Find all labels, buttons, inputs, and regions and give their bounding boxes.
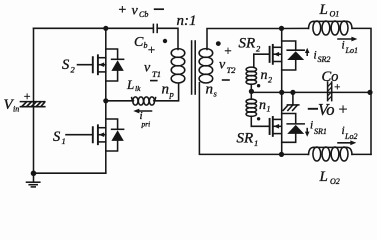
label vT1: [144, 42, 161, 81]
wire switch leg: [105, 28, 107, 173]
wire Llk to primary: [155, 83, 179, 101]
wire LO2 to right rail: [352, 153, 371, 155]
wire SR leg: [281, 29, 283, 155]
label S2: [62, 57, 76, 75]
label S1: [53, 129, 66, 146]
svg-text:in: in: [13, 105, 19, 114]
node secondary dot: [216, 41, 221, 46]
node n1 polarity dot: [257, 117, 260, 120]
wire secondary bottom: [199, 83, 281, 155]
svg-text:SR: SR: [237, 131, 254, 147]
svg-text:SR2: SR2: [318, 55, 331, 64]
svg-text:L: L: [319, 2, 328, 18]
node n2 polarity dot: [257, 84, 260, 87]
wire Llk branch: [106, 100, 133, 102]
svg-text:p: p: [169, 89, 174, 99]
svg-text:v: v: [144, 60, 151, 75]
arrow iSR1: [305, 129, 310, 137]
svg-text:n: n: [261, 68, 268, 83]
label SR1: [237, 131, 259, 148]
arrow iLo1: [338, 37, 357, 42]
transistor SR1: [252, 117, 282, 136]
node F (SR2 source junction): [279, 90, 284, 95]
label n1: [259, 98, 271, 113]
arrow ipri: [133, 109, 151, 114]
svg-text:+: +: [334, 82, 341, 94]
label np: [162, 82, 174, 100]
svg-text:S: S: [62, 57, 70, 73]
svg-text:1: 1: [267, 105, 271, 114]
wire top rail primary: [34, 27, 154, 29]
wire Cb to transformer: [157, 28, 178, 49]
wire left rail: [33, 28, 35, 173]
node G (ground tap junction): [290, 90, 295, 95]
node E (gate windings junction): [249, 89, 254, 94]
node primary dot: [163, 39, 167, 43]
svg-text:C: C: [134, 35, 144, 50]
diode body SR2: [282, 41, 305, 70]
svg-text:Lo1: Lo1: [345, 46, 358, 55]
label iSR2: [314, 49, 331, 64]
node H (output rail right junction): [367, 90, 372, 95]
transistor S1: [66, 125, 106, 144]
diode body S2: [106, 49, 124, 81]
svg-text:lk: lk: [135, 84, 141, 93]
svg-text:2: 2: [256, 44, 261, 54]
label vCb: [118, 3, 165, 19]
label SR2: [239, 36, 262, 54]
wire n2 to n1: [250, 84, 252, 99]
label ipri: [140, 110, 151, 129]
wire Llk hooks: [132, 98, 134, 101]
inductor LO2: [309, 147, 353, 161]
svg-text:i: i: [310, 119, 313, 131]
ground (bottom left): [27, 173, 40, 187]
svg-text:Cb: Cb: [139, 10, 148, 19]
svg-text:S: S: [53, 129, 61, 145]
svg-text:Vo: Vo: [318, 100, 335, 119]
label vT2: [219, 43, 236, 80]
transistor S2: [78, 55, 106, 74]
transformer T1 primary winding np: [171, 49, 185, 83]
label iLo1: [342, 40, 358, 56]
source Vin (hatched DC source symbol): [20, 102, 44, 107]
svg-text:T1: T1: [152, 69, 161, 79]
svg-text:+: +: [224, 43, 233, 58]
svg-text:L: L: [319, 169, 328, 185]
winding n2 gate drive: [246, 54, 256, 84]
node C (bottom-left ground junction): [31, 171, 37, 177]
node D (SR2 drain tap): [279, 26, 284, 31]
label LO2: [319, 169, 340, 186]
label iSR1: [310, 119, 327, 136]
label iLo2: [342, 125, 358, 141]
svg-text:2: 2: [71, 64, 76, 74]
transformer core: [192, 41, 196, 94]
diode body S1: [106, 119, 124, 151]
svg-text:n: n: [259, 98, 266, 113]
svg-text:+: +: [118, 3, 127, 18]
arrow iSR2: [305, 48, 310, 55]
svg-text:+: +: [338, 102, 349, 119]
wire LO1 to right rail: [352, 28, 371, 154]
label Cb: [134, 35, 148, 50]
svg-text:n: n: [162, 82, 170, 98]
node B (switch midpoint junction): [103, 98, 108, 103]
label Llk: [126, 77, 141, 93]
svg-text:1: 1: [62, 136, 66, 146]
svg-text:L: L: [126, 77, 134, 92]
svg-text:pri: pri: [141, 120, 151, 129]
svg-text:O2: O2: [330, 177, 340, 186]
arrow iLo2: [338, 140, 356, 145]
label LO1: [319, 2, 340, 19]
svg-text:v: v: [132, 3, 139, 18]
svg-text:i: i: [342, 40, 345, 52]
winding n1 gate drive: [246, 99, 256, 126]
wire top rail secondary: [282, 27, 309, 29]
capacitor Co (hatched): [328, 82, 332, 101]
svg-text:v: v: [219, 57, 226, 72]
svg-text:1: 1: [254, 138, 258, 148]
svg-text:SR1: SR1: [314, 127, 327, 136]
svg-text:s: s: [214, 89, 218, 99]
label ns: [206, 81, 218, 98]
svg-text:Lo2: Lo2: [344, 132, 357, 141]
transistor SR2: [254, 45, 282, 64]
inductor Llk: [133, 97, 155, 105]
label Vin: [4, 89, 32, 114]
svg-text:O1: O1: [330, 10, 340, 19]
svg-text:+: +: [147, 42, 156, 57]
wire mid rail: [251, 91, 371, 93]
node A (half-bridge top junction): [103, 26, 108, 31]
wire secondary top: [207, 29, 282, 50]
label Vo: [308, 100, 348, 119]
capacitor Cb: [153, 24, 157, 32]
svg-text:T2: T2: [227, 65, 237, 75]
svg-text:SR: SR: [239, 36, 256, 52]
svg-text:n:1: n:1: [177, 13, 197, 29]
wire bottom rail secondary: [282, 153, 309, 155]
svg-text:2: 2: [268, 76, 272, 85]
label n2: [261, 68, 273, 84]
svg-text:i: i: [314, 49, 317, 61]
svg-text:n: n: [206, 81, 214, 97]
wire bottom rail primary: [34, 172, 106, 174]
diode body SR1: [282, 114, 305, 143]
transformer T1 secondary winding ns: [199, 49, 213, 83]
svg-text:+: +: [23, 89, 31, 103]
ground (earth, mid rail): [283, 92, 299, 110]
inductor LO1: [309, 21, 353, 35]
node I (SR1 source junction bottom rail): [279, 152, 284, 157]
